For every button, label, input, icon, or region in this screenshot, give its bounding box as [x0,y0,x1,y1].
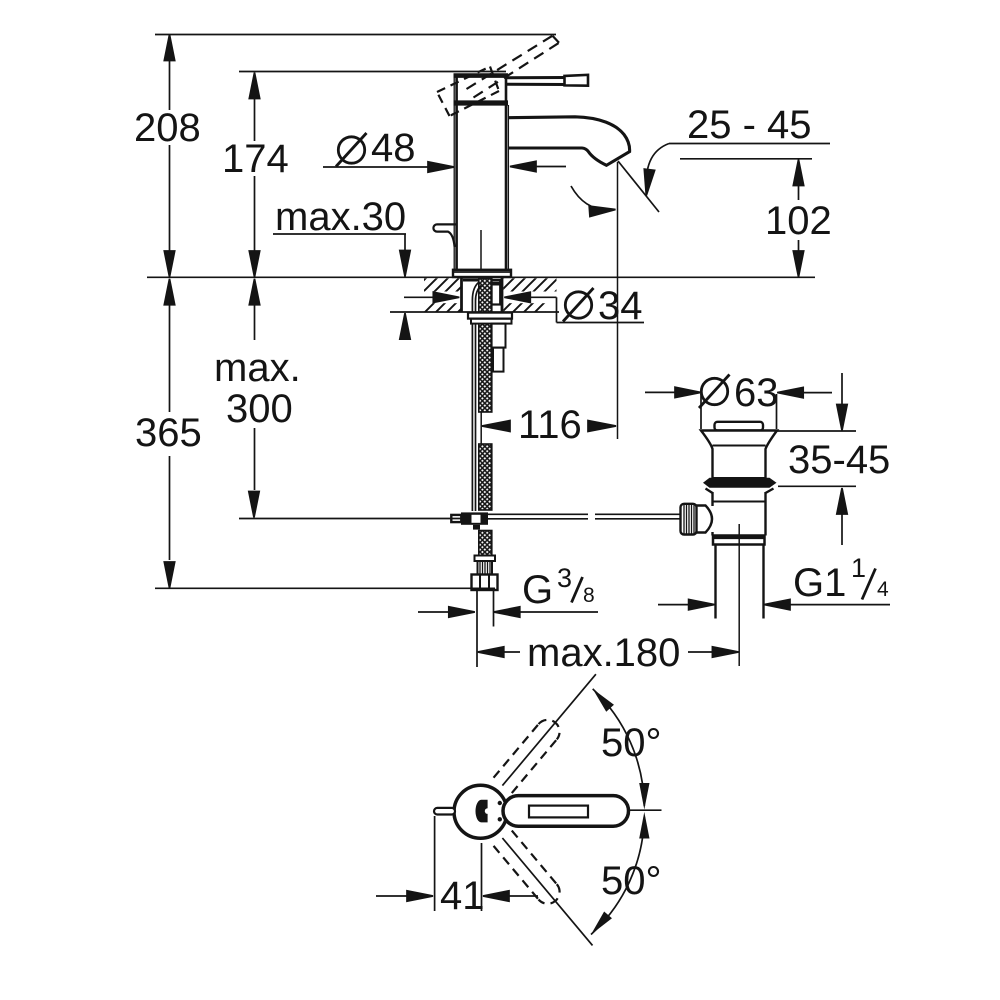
svg-text:300: 300 [226,387,293,431]
svg-text:G: G [522,568,553,612]
diagonal 50 up [502,674,596,785]
dim 102 [793,160,803,278]
dim G1 1/4 [658,599,890,609]
dim max.30 [273,234,410,339]
text Ø63 [699,375,730,409]
swivel arc right [641,144,669,197]
dim 35-45 [776,373,856,545]
svg-text:1: 1 [851,553,866,583]
knurled knob [681,504,697,535]
faucet body [454,74,508,270]
dashed handle down [494,831,565,909]
screw dots [498,801,502,805]
svg-text:G1: G1 [793,561,846,605]
dim 25-45 reference lines [669,144,830,159]
lever dashed (raised) [467,36,560,98]
hose centerline in gap [480,412,482,444]
centerline right of handle [629,809,662,811]
dim 174 [239,72,506,278]
svg-text:365: 365 [135,411,202,455]
shank stud in hole [492,280,501,305]
dim Ø48 [323,161,566,172]
waste centerline [738,524,740,666]
deck hatch right [504,278,557,291]
handle grip inner [529,806,588,818]
dim Ø63 [645,387,832,429]
svg-text:max.: max. [214,346,301,390]
base underside bar across hole [463,279,479,282]
svg-text:48: 48 [371,126,416,170]
svg-text:41: 41 [440,874,485,918]
text Ø34 [563,288,594,322]
handle (top view) [503,796,629,827]
dim 116 [482,421,616,432]
pop-up knob (side) [433,224,455,247]
svg-text:max.180: max.180 [527,631,680,675]
cap dashed (tilted) [437,67,499,117]
lever solid [507,75,588,86]
svg-text:102: 102 [765,199,832,243]
waste plug cap [715,422,764,431]
bowtie at handle axis [639,783,649,810]
25-45 jet angle leader [618,161,659,212]
svg-text:35-45: 35-45 [788,438,890,482]
swivel arc left [571,186,616,217]
text Ø48 [336,133,367,167]
svg-text:max.30: max.30 [275,195,406,239]
spout [508,117,630,166]
svg-text:50°: 50° [601,859,662,903]
outlet vertical reference line [617,162,619,439]
washer under deck [468,313,512,319]
body circle (top view) [454,785,507,838]
deck hole walls [460,278,463,312]
body centerline [480,230,482,276]
svg-text:4: 4 [877,578,889,601]
horizontal pop-up rod [486,514,681,519]
supply hose braided segments [479,279,492,557]
deck bottom line [390,311,559,313]
svg-text:8: 8 [583,584,595,607]
svg-text:3: 3 [557,563,572,593]
waste side port [696,506,712,533]
diagonal 50 down [502,838,592,945]
deck reference line [147,276,815,278]
tube below nut / max180 extension [476,590,478,667]
svg-text:25 - 45: 25 - 45 [687,103,812,147]
arc 50 lower [587,817,644,938]
dim 41 [376,816,538,911]
svg-text:174: 174 [222,137,289,181]
dim max.180 [478,647,739,657]
arc 50 upper [589,685,644,806]
tailpipe [714,545,716,619]
dim Ø34 [404,292,644,322]
dim G3/8 [418,607,598,617]
svg-text:34: 34 [598,284,643,328]
dim 208 [155,35,556,278]
pop-up vertical rod [472,283,481,512]
pin left [434,808,455,815]
deck hatch left [424,278,461,291]
waste flange [701,431,777,479]
G3/8 connector: collar, knurl, nut, tube [472,556,498,591]
dim max.300 [239,279,464,519]
svg-text:208: 208 [134,106,201,150]
waste lower nut [713,536,765,545]
faucet base [453,270,511,277]
svg-text:63: 63 [734,371,779,415]
cap (handle base) [454,76,509,103]
svg-text:116: 116 [518,403,582,447]
dashed handle up [494,715,565,793]
mounting nut stack [492,324,506,348]
pop-up rod clevis [451,512,488,529]
cartridge D mark [475,800,487,823]
waste body [706,489,774,536]
rubber gasket [703,478,777,488]
dim 365 [155,279,495,589]
